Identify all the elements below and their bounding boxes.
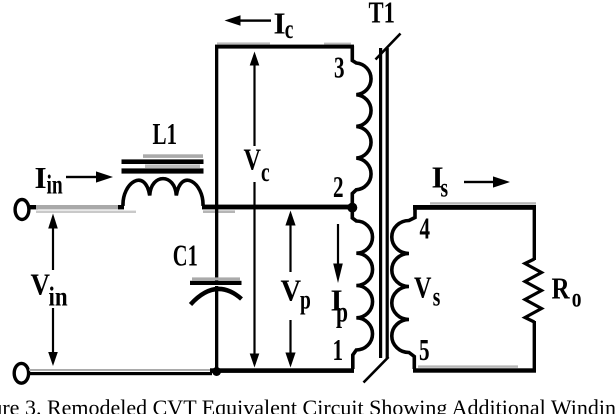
svg-text:5: 5 (419, 332, 430, 367)
label V_p (281, 273, 311, 315)
label I_c (274, 6, 294, 45)
transformer T1 secondary winding (4 to 5) (392, 205, 415, 369)
svg-text:L1: L1 (153, 116, 178, 151)
resistor R_o (525, 259, 542, 322)
label I_p (331, 283, 349, 329)
svg-text:I: I (274, 6, 286, 41)
label V_c (244, 143, 270, 188)
svg-text:o: o (572, 284, 582, 314)
svg-text:V: V (31, 268, 50, 302)
secondary loop top wire (413, 202, 536, 210)
transformer T1 primary winding upper (3 to 2) (352, 46, 371, 203)
svg-text:V: V (281, 273, 302, 307)
capacitor C1 top plate (190, 277, 242, 285)
wire capacitor-branch top horizontal (215, 42, 354, 48)
transformer core line right (386, 48, 389, 358)
svg-text:c: c (285, 15, 294, 45)
transformer T1 primary winding lower (2 to 1) (352, 212, 372, 369)
junction dot node 2 (347, 203, 357, 213)
svg-text:3: 3 (334, 49, 345, 84)
input terminal top (15, 200, 29, 220)
arrow V_p double (285, 211, 295, 368)
svg-text:1: 1 (333, 332, 344, 367)
core slash bottom (364, 357, 389, 383)
wire capacitor branch vertical (215, 46, 218, 371)
arrow V_in double (48, 214, 58, 367)
capacitor C1 curved plate (191, 289, 242, 305)
caption (0, 397, 616, 414)
label V_in (31, 268, 68, 312)
core slash top (376, 34, 401, 60)
label R_o (552, 272, 582, 313)
svg-text:c: c (261, 158, 270, 188)
secondary loop right wire upper (533, 207, 536, 260)
transformer core line left (379, 48, 382, 358)
svg-text:in: in (47, 171, 63, 201)
svg-text:s: s (441, 174, 449, 204)
svg-text:V: V (414, 271, 431, 306)
secondary loop right wire lower (533, 321, 536, 370)
svg-text:s: s (433, 283, 441, 313)
svg-text:V: V (244, 143, 261, 178)
svg-text:2: 2 (333, 169, 344, 204)
wire top-left input (gray) (30, 205, 136, 213)
arrow V_c double (250, 52, 260, 368)
inductor L1 winding (123, 179, 203, 206)
svg-text:4: 4 (420, 210, 431, 245)
svg-text:T1: T1 (369, 0, 395, 29)
svg-text:I: I (35, 160, 47, 195)
wire bottom (gray+black) (29, 368, 354, 375)
input terminal bottom (14, 363, 28, 383)
label I_s (432, 160, 449, 204)
junction dot at C1 bottom (212, 367, 221, 376)
secondary loop bottom wire (413, 365, 536, 372)
svg-text:in: in (49, 283, 68, 312)
svg-text:p: p (300, 286, 311, 316)
svg-text:C1: C1 (173, 238, 198, 272)
arrow I_in (66, 171, 113, 182)
label I_in (35, 160, 63, 200)
arrow I_c (225, 15, 272, 26)
arrow I_p (333, 224, 343, 283)
svg-text:R: R (552, 272, 571, 306)
arrow I_s (464, 176, 510, 187)
label V_s (414, 271, 440, 313)
wire middle (L1 to node 2) (202, 205, 351, 213)
svg-text:p: p (336, 295, 348, 328)
inductor L1 core bars (122, 154, 204, 173)
